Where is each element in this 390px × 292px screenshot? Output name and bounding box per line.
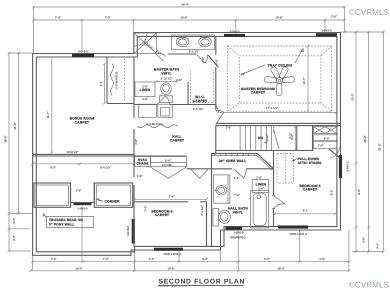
svg-text:3'-0": 3'-0" bbox=[362, 237, 366, 243]
wall: bath/wic bottom y104.5 bbox=[134, 104, 157, 106]
BEDROOM 5 label bbox=[151, 209, 172, 217]
TRAY CEILING label with leaders bbox=[241, 49, 304, 76]
svg-text:3'-0 BI-FOLD: 3'-0 BI-FOLD bbox=[147, 122, 164, 126]
svg-text:18'-0": 18'-0" bbox=[277, 266, 284, 270]
svg-text:10'-6": 10'-6" bbox=[167, 266, 174, 270]
wall: bonus room bottom y156 bbox=[33, 155, 187, 157]
svg-text:2'-8": 2'-8" bbox=[215, 59, 219, 65]
window 3-0x5-0 bedroom3 right wall (vertical) bbox=[339, 155, 350, 178]
svg-text:3'-2": 3'-2" bbox=[289, 133, 293, 139]
dimension tier2 top bbox=[32, 15, 346, 52]
wall below vanity bbox=[168, 53, 196, 55]
window 3-0x5-0 bonus room top bbox=[72, 50, 94, 58]
window 3-0x5-0 bedroom5 left wall (vertical) bbox=[126, 219, 135, 244]
hall bath door swing bbox=[234, 169, 246, 180]
svg-text:2'-6": 2'-6" bbox=[137, 174, 143, 178]
svg-text:DN: DN bbox=[258, 136, 264, 140]
angled wall wic bbox=[208, 55, 219, 68]
hall bath vanity + sink bbox=[213, 175, 230, 203]
svg-text:CARPET: CARPET bbox=[75, 120, 89, 124]
svg-text:CHASE: CHASE bbox=[136, 161, 149, 165]
bottom dimension tier A bbox=[31, 257, 350, 263]
CORNER label with arrow bbox=[97, 199, 121, 204]
small dims 1'-8 1/2" and 2'-8" bbox=[201, 57, 219, 65]
bedroom3 closet rod + labels bbox=[314, 135, 337, 149]
svg-text:4-0 DBL: 4-0 DBL bbox=[162, 163, 173, 167]
svg-text:PULL-DOWN: PULL-DOWN bbox=[298, 157, 320, 161]
svg-text:VINYL: VINYL bbox=[233, 210, 243, 214]
hall bath box walls bbox=[212, 168, 233, 170]
MASTER BATH label bbox=[154, 68, 180, 76]
dim 17'-1 1/2" master bottom bbox=[217, 106, 338, 114]
angled wall bedroom3 top-right bbox=[329, 149, 341, 159]
svg-text:CARPET: CARPET bbox=[193, 99, 207, 103]
master door swing bbox=[216, 106, 224, 124]
svg-text:15'-3": 15'-3" bbox=[351, 93, 355, 100]
svg-text:CARPET: CARPET bbox=[251, 91, 265, 95]
svg-text:3-0×5-0: 3-0×5-0 bbox=[78, 50, 88, 54]
dimension line 44'-4" top tier bbox=[32, 3, 346, 54]
double vanity bbox=[172, 35, 215, 53]
window 3-0x5-0 master bath top bbox=[224, 29, 245, 37]
shower door swing bbox=[156, 53, 167, 61]
svg-text:LINEN: LINEN bbox=[140, 88, 151, 92]
window 2-8x5-0 left lower recess bbox=[74, 202, 92, 210]
svg-text:5'-0": 5'-0" bbox=[165, 159, 171, 163]
svg-text:4'-0 BI-FOLD: 4'-0 BI-FOLD bbox=[115, 72, 119, 89]
svg-text:©CVRMLS: ©CVRMLS bbox=[349, 281, 390, 290]
hall bath linen bbox=[252, 175, 269, 192]
svg-text:3'-4": 3'-4" bbox=[376, 243, 380, 249]
svg-text:3-0×5-0: 3-0×5-0 bbox=[229, 29, 239, 33]
svg-text:SCALE: 3/16" = 1'-0": SCALE: 3/16" = 1'-0" bbox=[159, 284, 189, 288]
svg-text:4'-0": 4'-0" bbox=[324, 136, 330, 140]
svg-text:31'-0": 31'-0" bbox=[378, 143, 382, 150]
svg-text:9'-1": 9'-1" bbox=[303, 209, 309, 213]
door to bedroom5 vestibule bbox=[187, 169, 212, 179]
dim 7'-4" bedroom5 top bbox=[133, 195, 208, 201]
DN label with arrow bbox=[258, 134, 268, 144]
svg-text:14'-6": 14'-6" bbox=[180, 15, 187, 19]
svg-text:2'-6": 2'-6" bbox=[226, 125, 232, 129]
hall closet 4-0 DBL bbox=[150, 157, 186, 179]
svg-text:38'-8": 38'-8" bbox=[4, 135, 8, 142]
dim 7'-1" bonus (rotated) bbox=[46, 57, 53, 154]
BEDROOM 3 label bbox=[299, 184, 320, 192]
window TWN 2-8x5-0 bedroom3 bottom bbox=[278, 226, 308, 236]
recess between closets bbox=[71, 183, 95, 203]
left closet box 2 bbox=[94, 183, 132, 207]
svg-text:ATTIC STAIRS: ATTIC STAIRS bbox=[298, 161, 323, 165]
wall: long vertical x134 (bath/bonus/bedroom5 left) bbox=[133, 57, 135, 118]
master linen closet bbox=[135, 82, 155, 101]
svg-text:©CVRMLS: ©CVRMLS bbox=[349, 8, 390, 17]
svg-text:1-8×6-8: 1-8×6-8 bbox=[233, 231, 243, 235]
svg-text:7'-6": 7'-6" bbox=[234, 193, 240, 197]
svg-text:2'-8": 2'-8" bbox=[134, 139, 138, 145]
svg-text:28'-8": 28'-8" bbox=[363, 135, 367, 142]
svg-text:3'-6": 3'-6" bbox=[12, 218, 16, 224]
tempered door 1-8x6-8 hall bath bottom bbox=[226, 227, 246, 240]
svg-text:7'-0": 7'-0" bbox=[103, 257, 109, 261]
HALL BATH label bbox=[228, 207, 248, 215]
bedroom3 top wall y150.5 bbox=[274, 150, 314, 152]
window 3-0x5-0 master bedroom top right bbox=[316, 29, 337, 37]
hall bath toilet bbox=[213, 209, 230, 227]
HALL label bbox=[170, 135, 184, 143]
bottom dimension tier B bbox=[29, 266, 350, 272]
svg-text:2'-0": 2'-0" bbox=[318, 144, 324, 148]
HVAC chase box bbox=[135, 157, 151, 167]
left closet box 1 bbox=[34, 183, 71, 207]
wall: bedroom5 right x206.5 bbox=[206, 202, 208, 247]
svg-text:4'-8 1/2": 4'-8 1/2" bbox=[193, 107, 204, 111]
wall: master bedroom bottom (double) bbox=[216, 122, 341, 124]
wall: corridor/bath left x211.5 bbox=[211, 153, 213, 246]
svg-text:2-8×5-0: 2-8×5-0 bbox=[77, 206, 87, 210]
svg-text:8'-6": 8'-6" bbox=[357, 189, 361, 195]
master toilet bbox=[160, 83, 173, 103]
bonus closet (4-0 bifold) bbox=[107, 57, 134, 104]
svg-text:19'-8 1/2": 19'-8 1/2" bbox=[66, 150, 78, 154]
svg-text:3-0×5-0: 3-0×5-0 bbox=[346, 161, 350, 171]
PULL-DOWN ATTIC STAIRS label bbox=[292, 157, 322, 165]
svg-text:4'-1": 4'-1" bbox=[99, 81, 103, 87]
wall: master bedroom left x215.8 bbox=[215, 36, 217, 55]
wic door swing bbox=[197, 55, 208, 64]
exterior wall outline (outer) bbox=[33, 33, 341, 256]
svg-text:4'-0": 4'-0" bbox=[319, 257, 325, 261]
svg-text:11'-7": 11'-7" bbox=[46, 111, 50, 118]
bath door from hall bbox=[157, 96, 170, 105]
svg-text:TEMPERED: TEMPERED bbox=[229, 236, 245, 240]
window TWN 2-8x5-0 bedroom5 bottom bbox=[154, 248, 183, 256]
svg-text:31'-6": 31'-6" bbox=[13, 122, 17, 129]
svg-text:2'-6": 2'-6" bbox=[216, 106, 220, 112]
svg-text:3'-6": 3'-6" bbox=[76, 189, 82, 193]
dim line 9'-2"/9'-6 1/2" bbox=[31, 163, 135, 170]
svg-text:13'-6": 13'-6" bbox=[275, 15, 282, 19]
svg-text:CARPET: CARPET bbox=[303, 188, 317, 192]
svg-text:TRAY CEILING: TRAY CEILING bbox=[268, 64, 293, 68]
hall bath tub bbox=[251, 191, 269, 229]
svg-text:7'-1 1/2": 7'-1 1/2" bbox=[200, 205, 204, 216]
svg-text:VINYL: VINYL bbox=[161, 71, 171, 75]
tray ceiling outer dashed rect bbox=[227, 46, 331, 111]
svg-text:17'-1 1/2": 17'-1 1/2" bbox=[266, 106, 278, 110]
svg-text:TRUSSES BEAR ON: TRUSSES BEAR ON bbox=[49, 218, 83, 222]
svg-text:2'-10 1/2": 2'-10 1/2" bbox=[160, 77, 172, 81]
ceiling fan bbox=[265, 67, 295, 96]
svg-text:9'-0": 9'-0" bbox=[264, 257, 270, 261]
svg-text:8'-2": 8'-2" bbox=[330, 190, 334, 196]
dim 4'-1" closet (rotated) bbox=[99, 63, 106, 105]
svg-text:3-0×5-0: 3-0×5-0 bbox=[126, 226, 130, 236]
svg-text:TWN 2-8×5-0: TWN 2-8×5-0 bbox=[163, 252, 181, 256]
svg-text:3'-6": 3'-6" bbox=[142, 97, 148, 101]
dim 9'-1" bedroom3 bbox=[274, 209, 337, 216]
title SECOND FLOOR PLAN bbox=[158, 278, 245, 288]
wall: bedroom5 top y199.5 bbox=[134, 201, 188, 203]
svg-text:44'-4": 44'-4" bbox=[181, 3, 188, 7]
dim 12'-7" master right (rotated) bbox=[302, 45, 309, 113]
svg-text:2'-6": 2'-6" bbox=[331, 15, 337, 19]
dim 3'-2" stair landing bbox=[290, 125, 296, 151]
MASTER BEDROOM label bbox=[241, 87, 275, 95]
svg-text:2'-6": 2'-6" bbox=[258, 187, 264, 191]
svg-text:12'-7": 12'-7" bbox=[302, 77, 306, 84]
right dimension lines bbox=[341, 31, 385, 253]
BONUS ROOM label bbox=[70, 117, 95, 125]
exterior wall outline (inner) bbox=[36, 36, 337, 251]
svg-text:7'-0": 7'-0" bbox=[105, 15, 111, 19]
svg-text:7'-0": 7'-0" bbox=[55, 15, 61, 19]
stairwell treads bbox=[216, 126, 297, 151]
svg-text:7'-0": 7'-0" bbox=[51, 257, 57, 261]
dim 2'-10 1/2" bbox=[155, 77, 179, 83]
svg-text:2'-0": 2'-0" bbox=[201, 57, 205, 63]
svg-text:7'-0": 7'-0" bbox=[144, 206, 148, 212]
svg-text:3-0×5-0: 3-0×5-0 bbox=[321, 29, 331, 33]
pull-down attic stairs dashed box bbox=[277, 154, 294, 184]
svg-text:36" KNEE WALL: 36" KNEE WALL bbox=[219, 159, 247, 163]
wic dashed shelving + label bbox=[188, 71, 214, 111]
hall bifold 3-0 bbox=[137, 104, 178, 128]
knee wall with hatches bbox=[212, 153, 274, 170]
svg-text:9'-0": 9'-0" bbox=[202, 257, 208, 261]
svg-text:6'-4": 6'-4" bbox=[149, 257, 155, 261]
svg-text:3'-8": 3'-8" bbox=[12, 235, 16, 241]
bedroom3 closet shelf (hatched) bbox=[314, 127, 337, 134]
svg-text:9'-2": 9'-2" bbox=[50, 165, 56, 169]
TRUSSES BEAR ON label box bbox=[43, 214, 94, 228]
bottom extension lines bbox=[33, 206, 349, 271]
left dimension lines bbox=[4, 52, 33, 253]
svg-text:2'-6": 2'-6" bbox=[234, 176, 240, 180]
svg-text:CARPET: CARPET bbox=[170, 138, 184, 142]
svg-text:6'-1 1/2": 6'-1 1/2" bbox=[189, 49, 200, 53]
shower with X bbox=[134, 33, 162, 56]
svg-text:7'-4": 7'-4" bbox=[169, 195, 175, 199]
svg-text:0" PONY WALL: 0" PONY WALL bbox=[49, 223, 75, 227]
svg-text:CARPET: CARPET bbox=[155, 213, 169, 217]
svg-text:2'-0": 2'-0" bbox=[256, 175, 262, 179]
stair landing walls bbox=[296, 126, 298, 151]
svg-text:CORNER: CORNER bbox=[105, 200, 121, 204]
svg-text:14'-0": 14'-0" bbox=[75, 266, 82, 270]
svg-text:9'-6 1/2": 9'-6 1/2" bbox=[100, 165, 111, 169]
svg-text:TWN 2-8×5-0: TWN 2-8×5-0 bbox=[289, 232, 307, 236]
